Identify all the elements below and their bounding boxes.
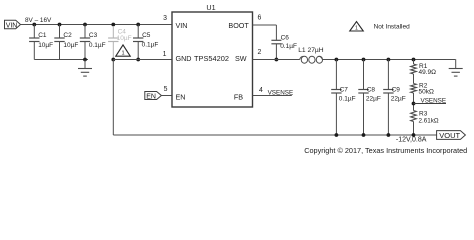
svg-text:10µF: 10µF bbox=[63, 42, 78, 49]
svg-text:R3: R3 bbox=[419, 110, 428, 117]
wire input gnd rail bbox=[34, 59, 88, 61]
capacitor C6 0.1uF bbox=[271, 34, 297, 59]
svg-text:2: 2 bbox=[258, 49, 262, 56]
resistor R1 49.9ohm bbox=[411, 60, 436, 84]
ground input bbox=[78, 60, 92, 77]
node VOUT-R3 bbox=[412, 133, 416, 137]
svg-text:1: 1 bbox=[355, 25, 358, 31]
net label 8V-16V bbox=[25, 17, 52, 24]
node VIN-C5 bbox=[136, 23, 140, 27]
capacitor C1 10uF bbox=[29, 25, 53, 60]
wire VIN rail bbox=[21, 24, 173, 26]
capacitor C8 22uF bbox=[358, 60, 381, 136]
svg-text:BOOT: BOOT bbox=[228, 21, 249, 30]
svg-text:U1: U1 bbox=[206, 3, 215, 12]
capacitor C9 22uF bbox=[383, 60, 406, 136]
svg-text:SW: SW bbox=[235, 54, 247, 63]
pin 5 number bbox=[164, 86, 168, 93]
wire EN to pin 5 bbox=[161, 95, 172, 97]
svg-text:C2: C2 bbox=[63, 32, 72, 39]
node VIN-C1 bbox=[32, 23, 36, 27]
EN input flag bbox=[145, 92, 162, 101]
svg-text:0.1µF: 0.1µF bbox=[142, 42, 159, 49]
wire VOUT rail bbox=[113, 134, 436, 136]
warning triangle note 1 legend bbox=[350, 22, 364, 32]
svg-text:VSENSE: VSENSE bbox=[268, 89, 294, 96]
svg-text:-12V,0.8A: -12V,0.8A bbox=[396, 137, 427, 144]
svg-text:5: 5 bbox=[164, 86, 168, 93]
resistor R3 2.61kohm bbox=[411, 110, 439, 135]
net label VSENSE right bbox=[414, 97, 447, 104]
pin 2 number bbox=[258, 49, 262, 56]
node C3 gnd bbox=[83, 58, 87, 62]
capacitor C7 0.1uF bbox=[331, 60, 355, 136]
svg-text:VSENSE: VSENSE bbox=[421, 97, 447, 104]
node out-C9 bbox=[387, 58, 391, 62]
svg-text:50kΩ: 50kΩ bbox=[419, 88, 434, 95]
svg-text:GND: GND bbox=[176, 54, 192, 63]
node C6-SW bbox=[275, 58, 279, 62]
svg-text:22µF: 22µF bbox=[391, 96, 406, 103]
node out-C8 bbox=[362, 58, 366, 62]
wire SW pin bbox=[253, 59, 300, 61]
svg-text:10µF: 10µF bbox=[38, 42, 53, 49]
svg-text:C3: C3 bbox=[89, 32, 98, 39]
pin 1 number bbox=[163, 51, 167, 58]
node out-C7 bbox=[335, 58, 339, 62]
svg-text:Copyright © 2017, Texas Instru: Copyright © 2017, Texas Instruments Inco… bbox=[304, 146, 467, 155]
net label -12V 0.8A bbox=[396, 137, 427, 144]
node VIN-C3 bbox=[83, 23, 87, 27]
svg-text:C1: C1 bbox=[38, 32, 47, 39]
copyright line bbox=[304, 146, 467, 155]
svg-text:1: 1 bbox=[121, 51, 124, 57]
svg-text:C6: C6 bbox=[281, 34, 290, 41]
pin 6 number bbox=[258, 14, 262, 21]
svg-text:2.61kΩ: 2.61kΩ bbox=[419, 118, 439, 125]
svg-text:EN: EN bbox=[146, 93, 156, 100]
svg-text:1: 1 bbox=[163, 51, 167, 58]
svg-text:10µF: 10µF bbox=[117, 35, 132, 42]
op-amp U1 TPS54202 bbox=[172, 3, 253, 107]
svg-text:VIN: VIN bbox=[6, 22, 18, 29]
wire BOOT pin bbox=[253, 25, 277, 40]
resistor R2 50kohm bbox=[411, 82, 434, 110]
note text Not Installed bbox=[374, 24, 411, 31]
capacitor C5 0.1uF bbox=[133, 25, 158, 60]
node out-R1 bbox=[412, 58, 416, 62]
svg-text:TPS54202: TPS54202 bbox=[194, 54, 229, 63]
svg-text:VIN: VIN bbox=[176, 21, 188, 30]
pin 3 number bbox=[163, 15, 167, 22]
svg-text:Not Installed: Not Installed bbox=[374, 24, 411, 31]
svg-text:0.1µF: 0.1µF bbox=[89, 42, 106, 49]
capacitor C2 10uF bbox=[54, 25, 78, 60]
wire FB pin bbox=[253, 95, 292, 97]
svg-text:C5: C5 bbox=[142, 32, 151, 39]
node VOUT-C7 bbox=[335, 133, 339, 137]
svg-text:0.1µF: 0.1µF bbox=[280, 43, 297, 50]
warning triangle note 1 at C4 bbox=[116, 45, 131, 57]
VIN input flag bbox=[5, 20, 21, 29]
svg-text:49.9Ω: 49.9Ω bbox=[419, 69, 437, 76]
pin 4 number bbox=[259, 87, 263, 94]
svg-text:L1 27µH: L1 27µH bbox=[298, 47, 324, 54]
svg-text:C8: C8 bbox=[367, 87, 376, 94]
node VOUT-C9 bbox=[387, 133, 391, 137]
svg-text:FB: FB bbox=[234, 92, 243, 101]
ground output bbox=[449, 60, 463, 77]
wire GND net to VOUT rail bbox=[112, 60, 114, 136]
svg-text:6: 6 bbox=[258, 14, 262, 21]
wire output rail bbox=[323, 59, 456, 61]
node VIN-C2 bbox=[58, 23, 62, 27]
svg-text:8V – 16V: 8V – 16V bbox=[25, 17, 52, 24]
node C4-GND junction bbox=[111, 58, 115, 62]
svg-text:22µF: 22µF bbox=[366, 96, 381, 103]
node VOUT-C8 bbox=[362, 133, 366, 137]
node VSENSE tap bbox=[412, 102, 416, 106]
net label VSENSE left bbox=[268, 89, 294, 96]
svg-text:C7: C7 bbox=[340, 87, 349, 94]
inductor L1 27uH bbox=[298, 47, 324, 63]
svg-text:EN: EN bbox=[176, 92, 186, 101]
wire IC GND pin net bbox=[113, 59, 172, 61]
svg-text:VOUT: VOUT bbox=[439, 131, 460, 140]
capacitor C4 10uF not installed bbox=[108, 26, 131, 58]
svg-text:0.1µF: 0.1µF bbox=[339, 96, 356, 103]
node VIN-C4 bbox=[111, 23, 115, 27]
svg-text:4: 4 bbox=[259, 87, 263, 94]
node C5-GND bbox=[136, 58, 140, 62]
svg-text:3: 3 bbox=[163, 15, 167, 22]
svg-text:C9: C9 bbox=[392, 87, 401, 94]
capacitor C3 0.1uF bbox=[80, 25, 106, 60]
VOUT output flag bbox=[437, 131, 466, 140]
